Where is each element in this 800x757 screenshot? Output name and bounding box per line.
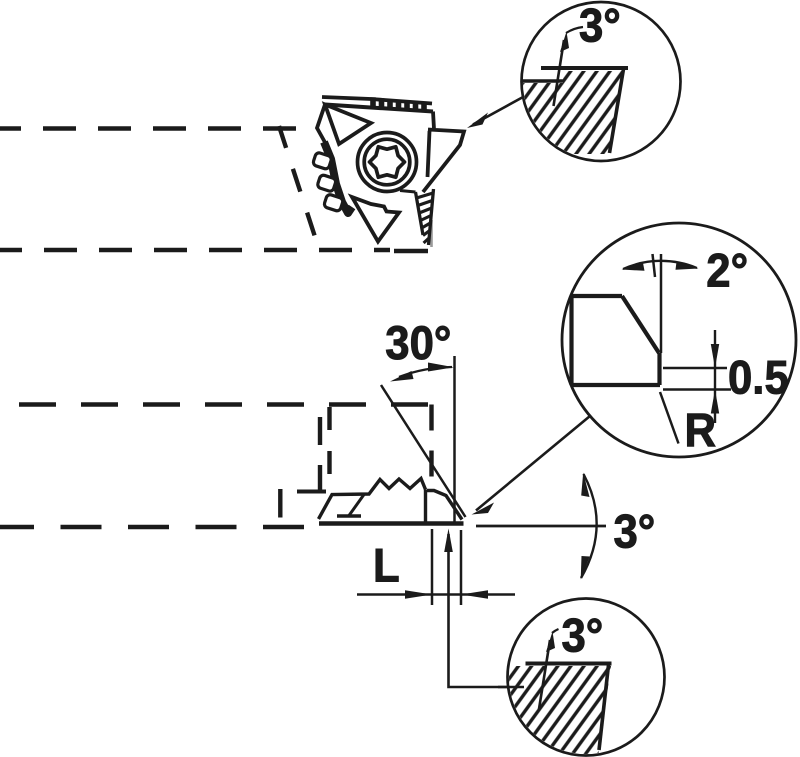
svg-text:3°: 3° xyxy=(614,505,656,558)
wedge top surface line (top detail circle) xyxy=(541,66,628,70)
L dimension extension line right (middle view) xyxy=(460,530,463,605)
R leader line from tip (large circle) xyxy=(660,392,679,444)
svg-text:2°: 2° xyxy=(706,244,748,297)
2° vertical reference line (large circle) xyxy=(660,254,663,353)
top-left corner facet triangle (top view) xyxy=(325,105,371,145)
leader line from tip to large detail circle xyxy=(472,416,591,515)
dashed holder top edge (top view) xyxy=(0,126,318,131)
lower-right serrated band rungs (top view) xyxy=(417,193,434,243)
30° slant line to insert tip (middle view) xyxy=(381,385,466,517)
dashed centerline (middle view) xyxy=(0,525,318,530)
wedge top surface line (bottom detail circle) xyxy=(526,662,612,666)
svg-text:3°: 3° xyxy=(579,0,621,52)
insert edge profile top surface (large circle) xyxy=(571,294,622,298)
dashed pocket edge B (middle view) xyxy=(318,417,322,493)
30° angle arc with arrows (middle view) xyxy=(390,363,454,382)
dashed pocket slant edge (top view) xyxy=(279,126,317,243)
thread-form bump 3 on left edge (top view) xyxy=(323,194,343,212)
insert edge chamfer (large circle) xyxy=(622,296,659,353)
screw outer circle (top view) xyxy=(358,133,417,192)
thread-form bump 1 on left edge (top view) xyxy=(312,152,332,170)
insert internal step line (middle view) xyxy=(337,514,361,518)
svg-text:0.5: 0.5 xyxy=(728,351,789,404)
2° tilted line stub (large circle) xyxy=(653,254,656,277)
top detail circle outline xyxy=(522,2,681,161)
svg-text:3°: 3° xyxy=(562,609,604,662)
hatched relief wedge (top detail circle) xyxy=(522,71,623,154)
3° label (middle view right) xyxy=(614,505,656,558)
left edge band behind bumps (top view) xyxy=(324,142,352,213)
30° vertical reference line (middle view) xyxy=(453,356,456,524)
lower-right serrated band inner rail (top view) xyxy=(416,192,424,235)
insert bottom edge (middle view) xyxy=(319,521,464,525)
3° label (top detail circle) xyxy=(579,0,621,52)
screw inner circle (top view) xyxy=(364,139,410,185)
torx recess star (top view) xyxy=(370,147,405,177)
leader tail inside bottom circle xyxy=(498,686,524,689)
bottom detail circle outline xyxy=(508,599,665,756)
serration comb teeth (top view) xyxy=(373,97,424,112)
3° measurement line with arrow (bottom detail circle) xyxy=(539,629,559,709)
svg-text:30°: 30° xyxy=(385,316,451,369)
svg-text:R: R xyxy=(685,404,717,457)
3° label (bottom detail circle) xyxy=(562,609,604,662)
insert internal vertical edge (middle view) xyxy=(424,490,427,522)
30° label (middle view) xyxy=(385,316,451,369)
serration comb top line (top view) xyxy=(322,97,432,104)
insert profile body (middle view) xyxy=(319,479,463,524)
wedge left lower surface line (top detail circle) xyxy=(522,79,563,83)
wedge right face edge (bottom detail circle) xyxy=(599,665,609,750)
large detail circle outline xyxy=(562,223,796,457)
L label (middle view) xyxy=(373,539,400,592)
bottom corner facet (top view) xyxy=(352,197,399,242)
insert edge front flank (large circle) xyxy=(657,353,661,385)
0.5 label (large circle) xyxy=(728,351,789,404)
dashed holder top edge (middle view) xyxy=(0,402,431,407)
insert outline (middle view) xyxy=(319,479,463,520)
2° label (large circle) xyxy=(706,244,748,297)
solid holder edge segment under insert (top view) xyxy=(394,220,432,251)
lower-right serrated band outer rail (top view) xyxy=(429,189,434,245)
clamp mark vertical bar (middle view) xyxy=(278,489,282,518)
0.5 lower dimension line (large circle) xyxy=(663,388,731,391)
svg-text:L: L xyxy=(373,539,400,592)
hatched relief wedge (bottom detail circle) xyxy=(507,666,611,757)
insert top edge (top view) xyxy=(325,105,433,112)
leader from insert bottom to bottom detail circle xyxy=(444,529,524,688)
leader line from insert corner to top detail circle xyxy=(467,97,524,129)
dashed holder bottom edge (top view) xyxy=(0,248,390,253)
3° measurement line with arrow (top detail circle) xyxy=(554,27,584,106)
3° arc with arrows right of tip (middle view) xyxy=(581,473,597,580)
R label (large circle) xyxy=(685,404,717,457)
right corner facet (top view) xyxy=(423,112,464,193)
insert internal facet diagonal (middle view) xyxy=(349,495,364,516)
dashed holder right edge (middle view) xyxy=(429,405,433,504)
L dimension line with arrows (middle view) xyxy=(357,590,515,599)
central face lower-right edge (top view) xyxy=(400,191,416,193)
horizontal reference line right of tip (middle view) xyxy=(476,525,606,528)
pocket seat line (middle view) xyxy=(297,490,326,494)
0.5 dimension vertical line with arrows (large circle) xyxy=(711,330,719,423)
insert edge profile left edge (large circle) xyxy=(569,296,573,385)
thread-form bump 2 on left edge (top view) xyxy=(317,174,337,192)
trigon insert body (top view) xyxy=(313,105,464,248)
wedge right face edge (top detail circle) xyxy=(610,69,624,153)
dashed pocket edge A (middle view) xyxy=(327,405,331,479)
2° angle arc with arrows (large circle) xyxy=(622,261,699,271)
insert edge profile bottom surface (large circle) xyxy=(571,383,660,387)
0.5 upper dimension line (large circle) xyxy=(663,367,727,370)
insert left edge (top view) xyxy=(317,105,327,147)
L dimension extension line left (middle view) xyxy=(431,529,434,605)
